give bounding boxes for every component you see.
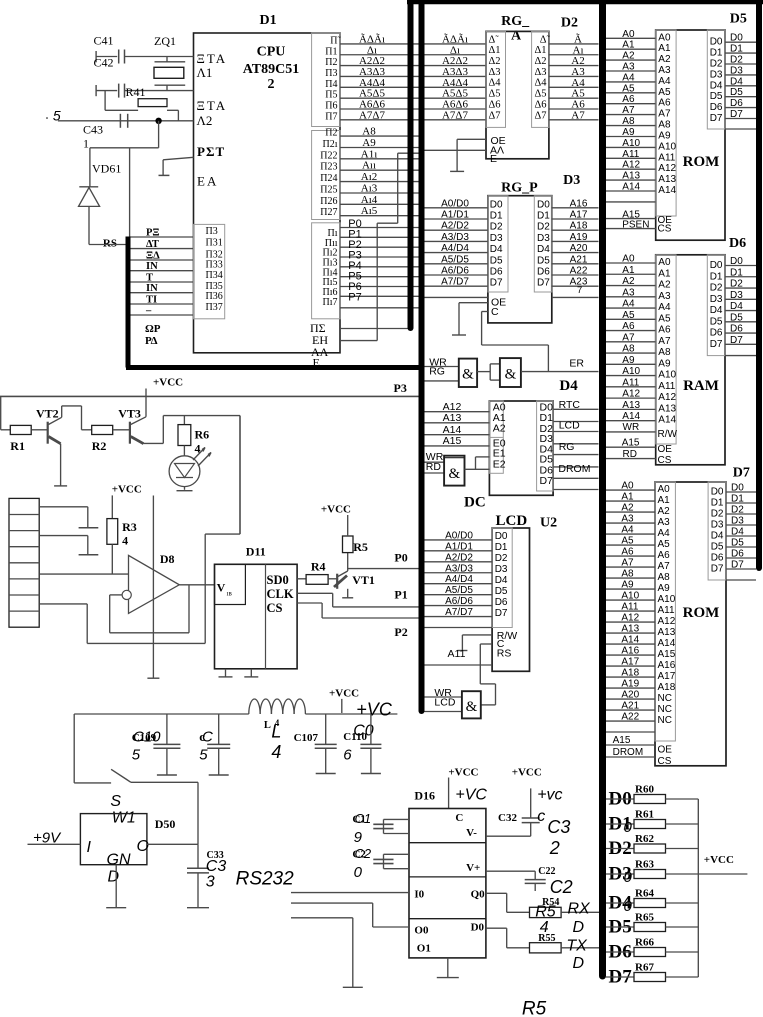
svg-text:A2: A2 (658, 280, 671, 291)
svg-text:D0: D0 (710, 260, 723, 271)
svg-text:5: 5 (132, 746, 141, 763)
svg-text:D4: D4 (490, 244, 503, 255)
svg-text:R61: R61 (635, 809, 654, 821)
svg-text:П34: П34 (206, 270, 223, 281)
svg-text:A11: A11 (658, 381, 675, 392)
svg-text:П32: П32 (206, 249, 223, 260)
svg-text:A18: A18 (570, 221, 588, 232)
svg-text:A20: A20 (570, 243, 588, 254)
svg-text:D: D (573, 919, 585, 936)
svg-text:D6: D6 (495, 597, 508, 608)
svg-text:A19: A19 (570, 232, 588, 243)
svg-text:V+: V+ (466, 862, 480, 874)
svg-text:D3: D3 (710, 69, 723, 80)
svg-text:U2: U2 (540, 516, 557, 531)
svg-text:RG_: RG_ (501, 14, 530, 29)
svg-text:P0: P0 (394, 551, 407, 565)
svg-text:A16: A16 (570, 198, 588, 209)
svg-text:A4/D4: A4/D4 (441, 243, 469, 254)
svg-text:R60: R60 (635, 784, 654, 796)
svg-text:A12: A12 (658, 392, 676, 403)
svg-text:D7: D7 (495, 608, 508, 619)
svg-text:2: 2 (549, 838, 560, 858)
svg-text:A1: A1 (658, 43, 671, 54)
svg-text:A9: A9 (622, 355, 635, 366)
svg-text:A16: A16 (658, 660, 676, 671)
svg-text:A11: A11 (621, 602, 638, 613)
svg-text:D5: D5 (730, 12, 747, 27)
svg-text:SD0: SD0 (267, 573, 289, 587)
svg-text:П22: П22 (320, 150, 337, 161)
svg-text:D3: D3 (563, 173, 580, 188)
svg-text:D6: D6 (729, 236, 746, 251)
svg-text:RTC: RTC (559, 399, 581, 411)
svg-text:A7: A7 (658, 561, 671, 572)
svg-text:C2: C2 (355, 846, 372, 861)
svg-text:Ε: Ε (490, 153, 497, 165)
svg-text:Δ2: Δ2 (534, 56, 546, 67)
svg-text:A7: A7 (571, 109, 585, 121)
svg-text:A9: A9 (622, 127, 635, 138)
svg-text:A6/D6: A6/D6 (441, 266, 469, 277)
svg-text:A8: A8 (362, 126, 376, 138)
svg-text:7: 7 (577, 285, 582, 296)
svg-text:D7: D7 (710, 113, 723, 124)
svg-text:A5: A5 (658, 539, 671, 550)
svg-text:ΞΤΑ: ΞΤΑ (197, 51, 228, 66)
svg-text:A14: A14 (622, 411, 640, 422)
svg-text:RAM: RAM (683, 378, 719, 394)
svg-text:A10: A10 (658, 594, 676, 605)
svg-text:A3/D3: A3/D3 (441, 232, 469, 243)
svg-text:+VCC: +VCC (448, 767, 478, 779)
svg-text:D7: D7 (733, 466, 750, 481)
svg-text:A6: A6 (621, 547, 634, 558)
svg-text:A14: A14 (622, 182, 640, 193)
svg-text:A5: A5 (622, 83, 635, 94)
svg-text:A8: A8 (622, 116, 635, 127)
svg-text:D4: D4 (710, 80, 723, 91)
svg-text:A3: A3 (658, 291, 671, 302)
svg-text:A11: A11 (622, 149, 639, 160)
svg-text:D1: D1 (731, 494, 744, 505)
svg-text:WR: WR (623, 422, 640, 433)
svg-text:R5: R5 (535, 904, 556, 921)
svg-text:Δ7: Δ7 (534, 110, 546, 121)
svg-text:Λ1: Λ1 (197, 65, 213, 80)
svg-text:A6: A6 (622, 94, 635, 105)
svg-text:ΙΝ: ΙΝ (146, 261, 158, 272)
svg-text:A0: A0 (658, 257, 671, 268)
svg-text:E2: E2 (493, 458, 506, 470)
svg-text:D2: D2 (731, 505, 744, 516)
svg-text:L: L (271, 722, 281, 742)
svg-text:A1: A1 (658, 268, 671, 279)
svg-text:D7: D7 (490, 278, 503, 289)
svg-text:P1: P1 (394, 588, 407, 602)
svg-text:A15: A15 (622, 438, 640, 449)
svg-text:O0: O0 (414, 925, 429, 937)
svg-text:ΞΤΑ: ΞΤΑ (197, 98, 228, 113)
svg-text:П1: П1 (325, 46, 337, 57)
svg-text:A9: A9 (658, 358, 671, 369)
svg-text:&: & (466, 699, 478, 715)
svg-text:A6: A6 (658, 98, 671, 109)
svg-text:+VC: +VC (455, 787, 487, 804)
svg-text:D4: D4 (559, 378, 578, 394)
svg-text:A17: A17 (658, 671, 676, 682)
svg-text:ΡΞ: ΡΞ (146, 228, 160, 239)
svg-text:A9: A9 (658, 131, 671, 142)
svg-text:A16: A16 (621, 646, 639, 657)
svg-text:A0: A0 (621, 481, 634, 492)
svg-text:+VCC: +VCC (112, 484, 142, 496)
svg-text:A4: A4 (622, 299, 635, 310)
svg-text:D7: D7 (730, 109, 743, 120)
svg-text:P2: P2 (394, 625, 407, 639)
svg-text:D4: D4 (710, 305, 723, 316)
svg-text:ΩΡ: ΩΡ (145, 323, 161, 335)
svg-text:A1/D1: A1/D1 (441, 210, 469, 221)
svg-text:A13: A13 (621, 624, 639, 635)
svg-text:П23: П23 (320, 162, 337, 173)
svg-text:A11: A11 (658, 152, 675, 163)
svg-text:S: S (110, 793, 121, 810)
svg-text:D0: D0 (495, 531, 508, 542)
svg-text:A7Δ7: A7Δ7 (359, 109, 386, 121)
svg-text:D7: D7 (537, 278, 550, 289)
svg-text:&: & (448, 466, 460, 482)
svg-text:0: 0 (354, 864, 363, 881)
svg-text:R41: R41 (126, 85, 146, 99)
svg-text:+VCC: +VCC (512, 767, 542, 779)
svg-text:ΡΣΤ: ΡΣΤ (197, 144, 225, 159)
svg-text:+vc: +vc (537, 787, 562, 804)
svg-text:Aı5: Aı5 (361, 205, 378, 217)
svg-text:&: & (462, 367, 474, 383)
svg-text:A22: A22 (570, 266, 588, 277)
svg-text:П27: П27 (320, 207, 337, 218)
svg-text:A2: A2 (493, 422, 506, 434)
svg-text:2: 2 (268, 77, 275, 92)
svg-text:D2: D2 (710, 59, 723, 70)
svg-text:D1: D1 (495, 542, 508, 553)
svg-text:C42: C42 (94, 56, 114, 70)
svg-text:Δ3: Δ3 (534, 67, 546, 78)
svg-text:A1/D1: A1/D1 (445, 541, 473, 552)
svg-text:A8: A8 (622, 344, 635, 355)
svg-text:A5: A5 (621, 536, 634, 547)
svg-text:C2: C2 (550, 877, 573, 897)
svg-text:OE: OE (658, 444, 673, 455)
svg-text:A9: A9 (621, 580, 634, 591)
svg-text:CS: CS (658, 455, 672, 466)
svg-text:ZQ1: ZQ1 (154, 34, 176, 48)
svg-text:A12: A12 (622, 389, 640, 400)
svg-text:D5: D5 (490, 255, 503, 266)
svg-text:A3: A3 (658, 65, 671, 76)
svg-text:D5: D5 (731, 538, 744, 549)
svg-text:R5: R5 (522, 999, 547, 1017)
svg-text:VD61: VD61 (92, 162, 121, 176)
svg-text:A22: A22 (621, 712, 639, 723)
svg-text:A7/D7: A7/D7 (441, 277, 469, 288)
svg-text:A2: A2 (621, 503, 634, 514)
svg-text:A0: A0 (622, 29, 635, 40)
svg-text:A10: A10 (622, 138, 640, 149)
svg-text:A2: A2 (658, 506, 671, 517)
svg-text:A13: A13 (443, 412, 462, 424)
svg-text:RS: RS (497, 647, 512, 659)
svg-text:R4: R4 (311, 560, 326, 574)
svg-text:Δ5: Δ5 (534, 89, 546, 100)
svg-text:ıв: ıв (227, 590, 233, 598)
svg-text:П6: П6 (325, 101, 337, 112)
svg-text:NC: NC (658, 704, 672, 715)
svg-text:A2/D2: A2/D2 (445, 552, 473, 563)
svg-text:D2: D2 (711, 509, 724, 520)
svg-text:A5: A5 (658, 87, 671, 98)
svg-text:CS: CS (658, 756, 672, 767)
svg-text:D0: D0 (537, 199, 550, 210)
svg-text:A13: A13 (658, 174, 676, 185)
svg-text:A14: A14 (658, 415, 676, 426)
svg-text:0: 0 (624, 869, 633, 886)
svg-text:3: 3 (206, 874, 215, 891)
svg-text:D7: D7 (711, 564, 724, 575)
svg-text:D6: D6 (537, 267, 550, 278)
svg-text:D4: D4 (731, 527, 744, 538)
svg-text:I: I (87, 839, 92, 856)
svg-text:D5: D5 (495, 586, 508, 597)
svg-text:П2ı: П2ı (323, 139, 338, 150)
svg-text:A7Δ7: A7Δ7 (442, 109, 469, 121)
svg-text:NC: NC (658, 693, 672, 704)
svg-text:TX: TX (566, 938, 588, 955)
svg-text:D4: D4 (730, 76, 743, 87)
svg-text:DROM: DROM (613, 747, 644, 758)
svg-text:A8: A8 (658, 120, 671, 131)
svg-text:Δ4: Δ4 (489, 78, 502, 89)
svg-text:D0: D0 (471, 922, 485, 934)
svg-text:A2: A2 (658, 54, 671, 65)
svg-text:D6: D6 (730, 324, 743, 335)
svg-text:П24: П24 (320, 173, 337, 184)
svg-text:C3: C3 (547, 817, 570, 837)
svg-text:A19: A19 (621, 679, 639, 690)
svg-text:C32: C32 (498, 812, 517, 824)
svg-text:Δ5: Δ5 (489, 89, 501, 100)
svg-text:A2: A2 (622, 276, 635, 287)
svg-text:D6: D6 (490, 267, 503, 278)
svg-text:Aıı: Aıı (362, 160, 376, 172)
svg-text:D7: D7 (731, 560, 744, 571)
svg-text:W1: W1 (112, 810, 136, 827)
svg-text:D4: D4 (495, 575, 508, 586)
svg-text:D3: D3 (731, 516, 744, 527)
svg-text:A11: A11 (448, 648, 466, 660)
svg-text:A0: A0 (658, 32, 671, 43)
svg-text:+VCC: +VCC (329, 688, 359, 700)
svg-text:Δ7: Δ7 (489, 110, 501, 121)
svg-text:D3: D3 (730, 65, 743, 76)
svg-text:AT89C51: AT89C51 (243, 62, 300, 77)
svg-text:D3: D3 (490, 233, 503, 244)
svg-text:D1: D1 (710, 271, 723, 282)
svg-text:R63: R63 (635, 859, 654, 871)
svg-text:RG: RG (429, 366, 445, 378)
svg-text:D6: D6 (730, 98, 743, 109)
svg-text:C3: C3 (206, 858, 227, 875)
svg-text:D4: D4 (537, 244, 550, 255)
svg-text:A15: A15 (613, 735, 631, 746)
svg-text:A4: A4 (658, 528, 671, 539)
svg-text:R67: R67 (635, 962, 654, 974)
svg-text:A4: A4 (658, 302, 671, 313)
svg-text:4: 4 (122, 534, 128, 548)
svg-text:П31: П31 (206, 238, 223, 249)
svg-text:I0: I0 (414, 889, 424, 901)
svg-text:D5: D5 (730, 87, 743, 98)
svg-text:1: 1 (83, 137, 89, 151)
svg-text:A7: A7 (621, 558, 634, 569)
svg-text:D3: D3 (730, 290, 743, 301)
svg-text:A12: A12 (622, 160, 640, 171)
svg-text:D6: D6 (710, 102, 723, 113)
svg-text:D1: D1 (260, 13, 277, 28)
svg-text:A8: A8 (658, 572, 671, 583)
svg-text:D2: D2 (730, 55, 743, 66)
svg-text:DROM: DROM (558, 463, 590, 475)
svg-text:C43: C43 (83, 123, 103, 137)
svg-text:A7: A7 (658, 109, 671, 120)
svg-text:0: 0 (624, 898, 633, 915)
svg-text:C1: C1 (355, 811, 372, 826)
svg-text:D11: D11 (246, 545, 266, 559)
svg-text:D5: D5 (710, 91, 723, 102)
svg-text:A0: A0 (658, 484, 671, 495)
svg-text:П36: П36 (206, 291, 223, 302)
svg-text:ΤΙ: ΤΙ (146, 295, 157, 306)
svg-text:A7/D7: A7/D7 (445, 607, 473, 618)
svg-text:D6: D6 (731, 549, 744, 560)
svg-text:D3: D3 (710, 294, 723, 305)
svg-text:D1: D1 (730, 44, 743, 55)
svg-text:D5: D5 (537, 255, 550, 266)
svg-text:A15: A15 (443, 435, 462, 447)
svg-text:П5: П5 (325, 90, 337, 101)
svg-text:A10: A10 (658, 141, 676, 152)
svg-text:A3: A3 (622, 62, 635, 73)
svg-text:D2: D2 (537, 222, 550, 233)
svg-text:A4: A4 (621, 525, 634, 536)
svg-text:D3: D3 (495, 564, 508, 575)
svg-text:A1: A1 (658, 495, 671, 506)
svg-text:D6: D6 (710, 328, 723, 339)
svg-text:+VCC: +VCC (704, 854, 734, 866)
svg-text:ΞΔ: ΞΔ (146, 251, 160, 262)
svg-text:A3: A3 (658, 517, 671, 528)
svg-text:П37: П37 (206, 302, 223, 313)
svg-text:ΕΑ: ΕΑ (197, 174, 218, 189)
svg-text:O: O (137, 838, 149, 855)
svg-text:R/W: R/W (658, 429, 678, 440)
svg-text:П26: П26 (320, 196, 337, 207)
svg-text:A12: A12 (658, 616, 676, 627)
svg-text:LCD: LCD (434, 696, 455, 708)
svg-text:Δ6: Δ6 (489, 99, 501, 110)
svg-text:A12: A12 (658, 163, 676, 174)
svg-text:D7: D7 (730, 335, 743, 346)
svg-text:A13: A13 (622, 400, 640, 411)
svg-text:A1: A1 (621, 492, 634, 503)
svg-text:D2: D2 (490, 222, 503, 233)
svg-text:C107: C107 (294, 732, 319, 744)
svg-text:D8: D8 (160, 552, 175, 566)
svg-text:ROM: ROM (683, 605, 720, 621)
svg-text:A1: A1 (622, 40, 635, 51)
svg-text:R62: R62 (635, 833, 654, 845)
svg-text:V-: V- (466, 827, 477, 839)
svg-text:A3: A3 (622, 287, 635, 298)
svg-text:D16: D16 (414, 789, 435, 803)
svg-text:A6/D6: A6/D6 (445, 596, 473, 607)
svg-text:ΡΔ: ΡΔ (145, 335, 158, 347)
svg-text:A3: A3 (621, 514, 634, 525)
svg-text:A9: A9 (362, 137, 376, 149)
svg-text:5: 5 (53, 107, 61, 123)
svg-text:RG: RG (559, 441, 575, 453)
svg-text:D0: D0 (490, 199, 503, 210)
svg-text:D: D (573, 955, 585, 972)
svg-text:Δ1: Δ1 (489, 45, 501, 56)
svg-text:C41: C41 (94, 34, 114, 48)
svg-text:A11: A11 (658, 605, 675, 616)
svg-text:П25: П25 (320, 185, 337, 196)
svg-text:P7: P7 (348, 292, 361, 304)
svg-text:DC: DC (464, 495, 486, 511)
svg-text:R64: R64 (635, 888, 654, 900)
svg-text:A17: A17 (570, 210, 588, 221)
svg-text:RS232: RS232 (236, 869, 295, 890)
svg-text:D0: D0 (730, 256, 743, 267)
svg-text:A12: A12 (621, 613, 639, 624)
svg-text:Aı2: Aı2 (361, 171, 378, 183)
svg-text:4: 4 (271, 742, 281, 762)
svg-text:A4: A4 (658, 76, 671, 87)
svg-text:Δ6: Δ6 (534, 99, 546, 110)
svg-text:A4: A4 (622, 72, 635, 83)
svg-text:A14: A14 (658, 638, 676, 649)
svg-text:A7: A7 (622, 332, 635, 343)
svg-text:A18: A18 (621, 668, 639, 679)
svg-text:D4: D4 (730, 301, 743, 312)
svg-text:LCD: LCD (496, 513, 528, 529)
svg-text:D50: D50 (155, 817, 176, 831)
svg-text:C22: C22 (538, 866, 555, 877)
svg-text:RX: RX (568, 901, 592, 918)
svg-text:CS: CS (658, 224, 672, 235)
svg-text:A10: A10 (621, 591, 639, 602)
svg-text:Δ1: Δ1 (534, 45, 546, 56)
svg-text:A6: A6 (622, 321, 635, 332)
svg-text:CS: CS (267, 601, 283, 615)
svg-text:A13: A13 (658, 627, 676, 638)
svg-text:5: 5 (199, 746, 208, 763)
svg-text:A21: A21 (621, 701, 639, 712)
svg-text:A4/D4: A4/D4 (445, 574, 473, 585)
svg-text:RD: RD (623, 449, 637, 460)
